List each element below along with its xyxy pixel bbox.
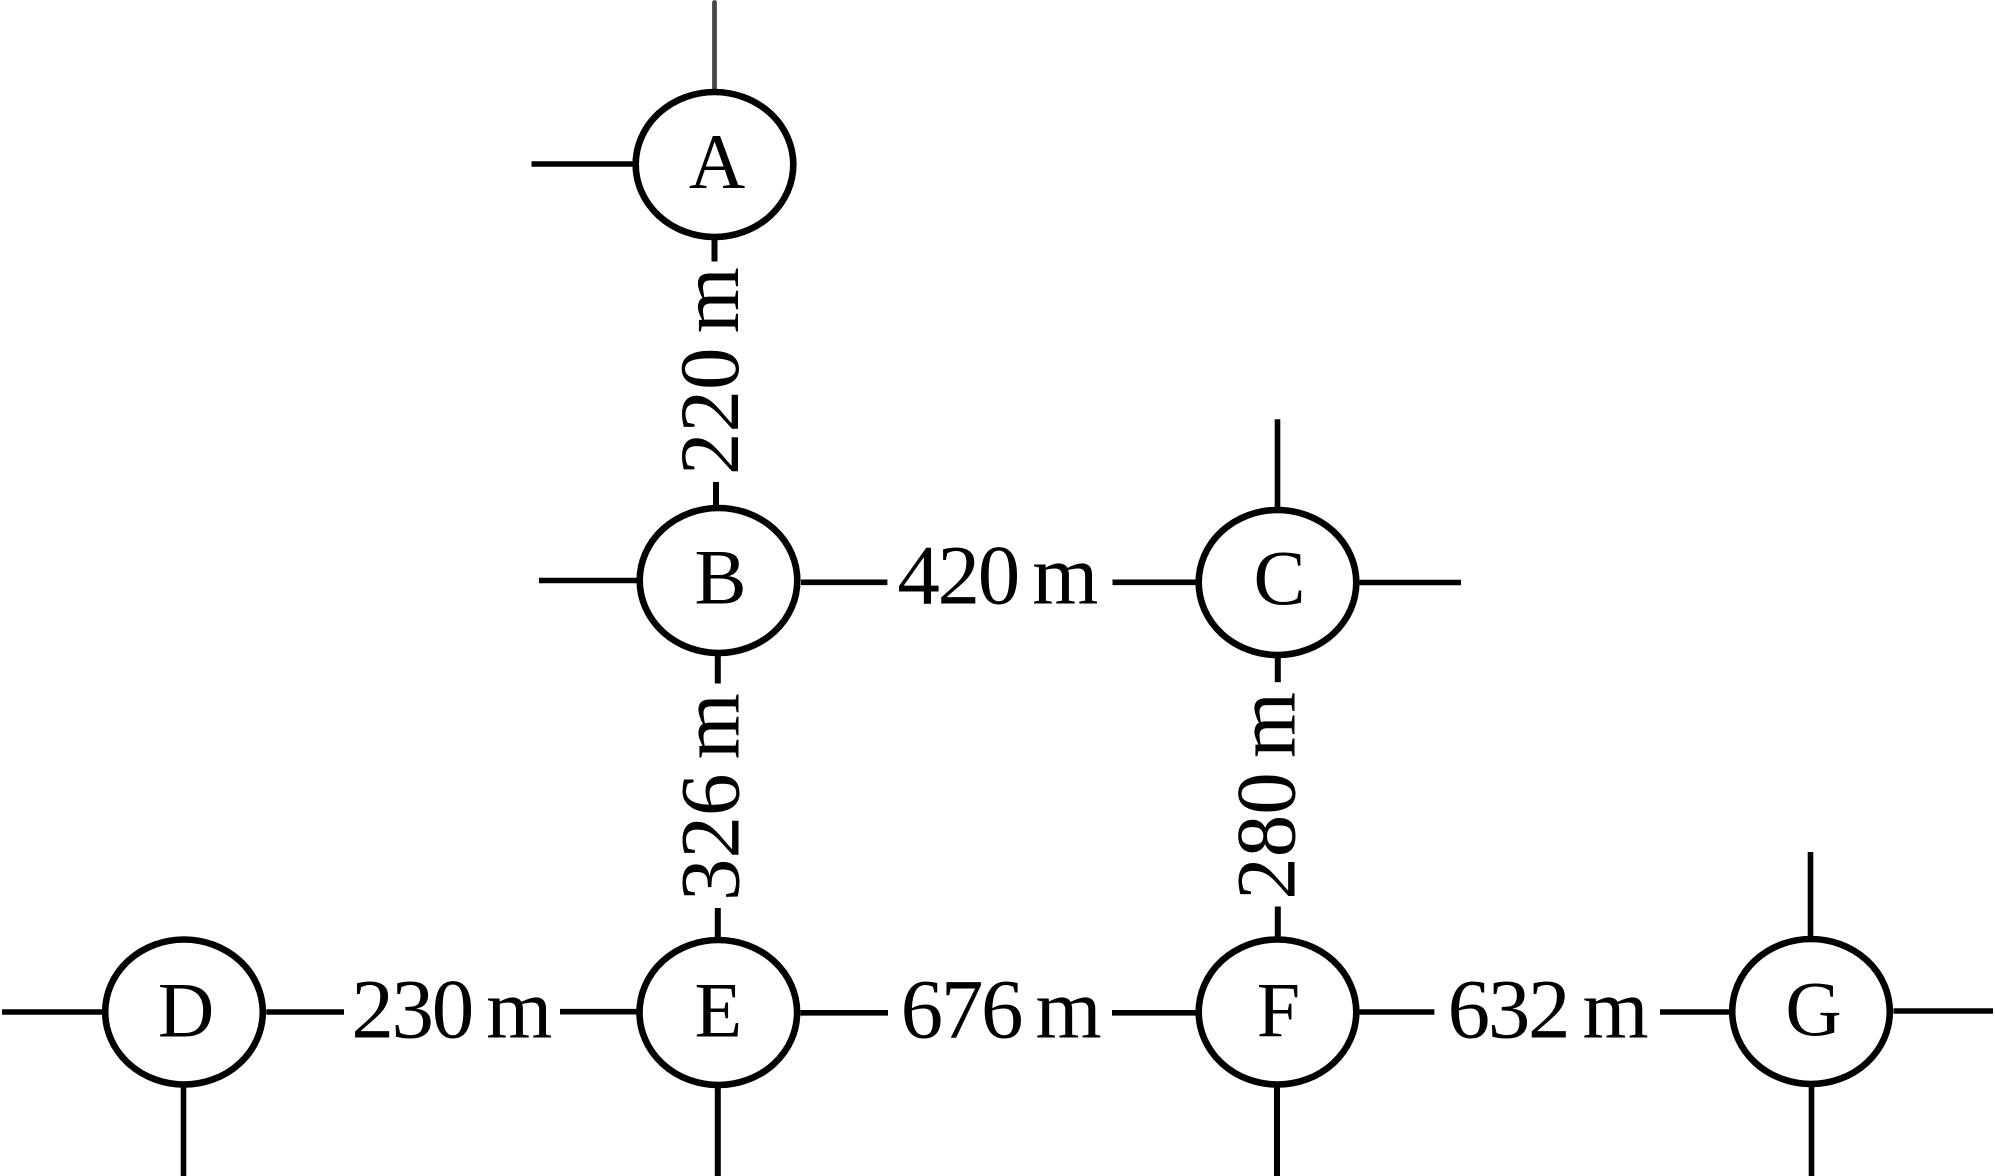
node A [636, 92, 794, 237]
wire: stub left of node D [2, 1009, 103, 1015]
wire: edge F-G right segment [1660, 1009, 1730, 1015]
wire: edge B-E upper segment [715, 655, 721, 684]
svg-text:676 m: 676 m [901, 962, 1101, 1056]
wire: edge C-F upper segment [1275, 657, 1281, 683]
svg-text:280 m: 280 m [1220, 692, 1314, 900]
svg-text:230 m: 230 m [351, 963, 551, 1057]
wire: edge D-E left segment [266, 1009, 344, 1015]
node E [640, 940, 798, 1085]
wire: stub right of node C [1360, 580, 1462, 586]
wire: stub up from node C [1275, 419, 1281, 509]
wire: stub left of node A [532, 161, 633, 167]
node B [640, 508, 798, 653]
svg-text:420 m: 420 m [897, 529, 1097, 623]
wire: stub up from node G [1808, 852, 1814, 939]
wire: edge D-E right segment [560, 1009, 637, 1015]
wire: edge C-F lower segment [1275, 907, 1281, 939]
svg-text:A: A [689, 118, 745, 205]
svg-text:B: B [694, 534, 746, 621]
svg-text:G: G [1785, 965, 1841, 1052]
svg-text:326 m: 326 m [664, 693, 758, 901]
svg-text:C: C [1253, 534, 1305, 621]
wire: stub down from node G [1809, 1087, 1815, 1176]
svg-text:220 m: 220 m [663, 267, 757, 475]
wire: edge B-C right segment [1113, 579, 1197, 585]
node C [1199, 510, 1357, 655]
wire: edge A-B lower segment [713, 482, 719, 507]
wire: edge E-F right segment [1112, 1010, 1197, 1016]
wire: stub left of node B [539, 578, 637, 584]
wire: stub right of node G [1894, 1008, 1994, 1014]
wire: edge A-B upper segment [712, 238, 718, 262]
wire: edge B-C left segment [801, 579, 887, 585]
wire: stub down from node D [181, 1087, 187, 1176]
wire: stub up from node A (gray) [712, 3, 717, 92]
node D [105, 940, 263, 1085]
svg-text:F: F [1257, 967, 1300, 1054]
wire: stub down from node E [715, 1088, 721, 1176]
junction dot at top of node A [710, 92, 718, 100]
wire: stub down from node F [1274, 1087, 1280, 1176]
wire: edge E-F left segment [801, 1010, 889, 1016]
svg-text:D: D [158, 967, 214, 1054]
svg-text:E: E [694, 967, 742, 1054]
wire: edge F-G left segment [1359, 1009, 1434, 1015]
wire: edge B-E lower segment [715, 908, 721, 939]
svg-text:632 m: 632 m [1448, 963, 1648, 1057]
node G [1732, 939, 1890, 1084]
node F [1199, 940, 1357, 1085]
